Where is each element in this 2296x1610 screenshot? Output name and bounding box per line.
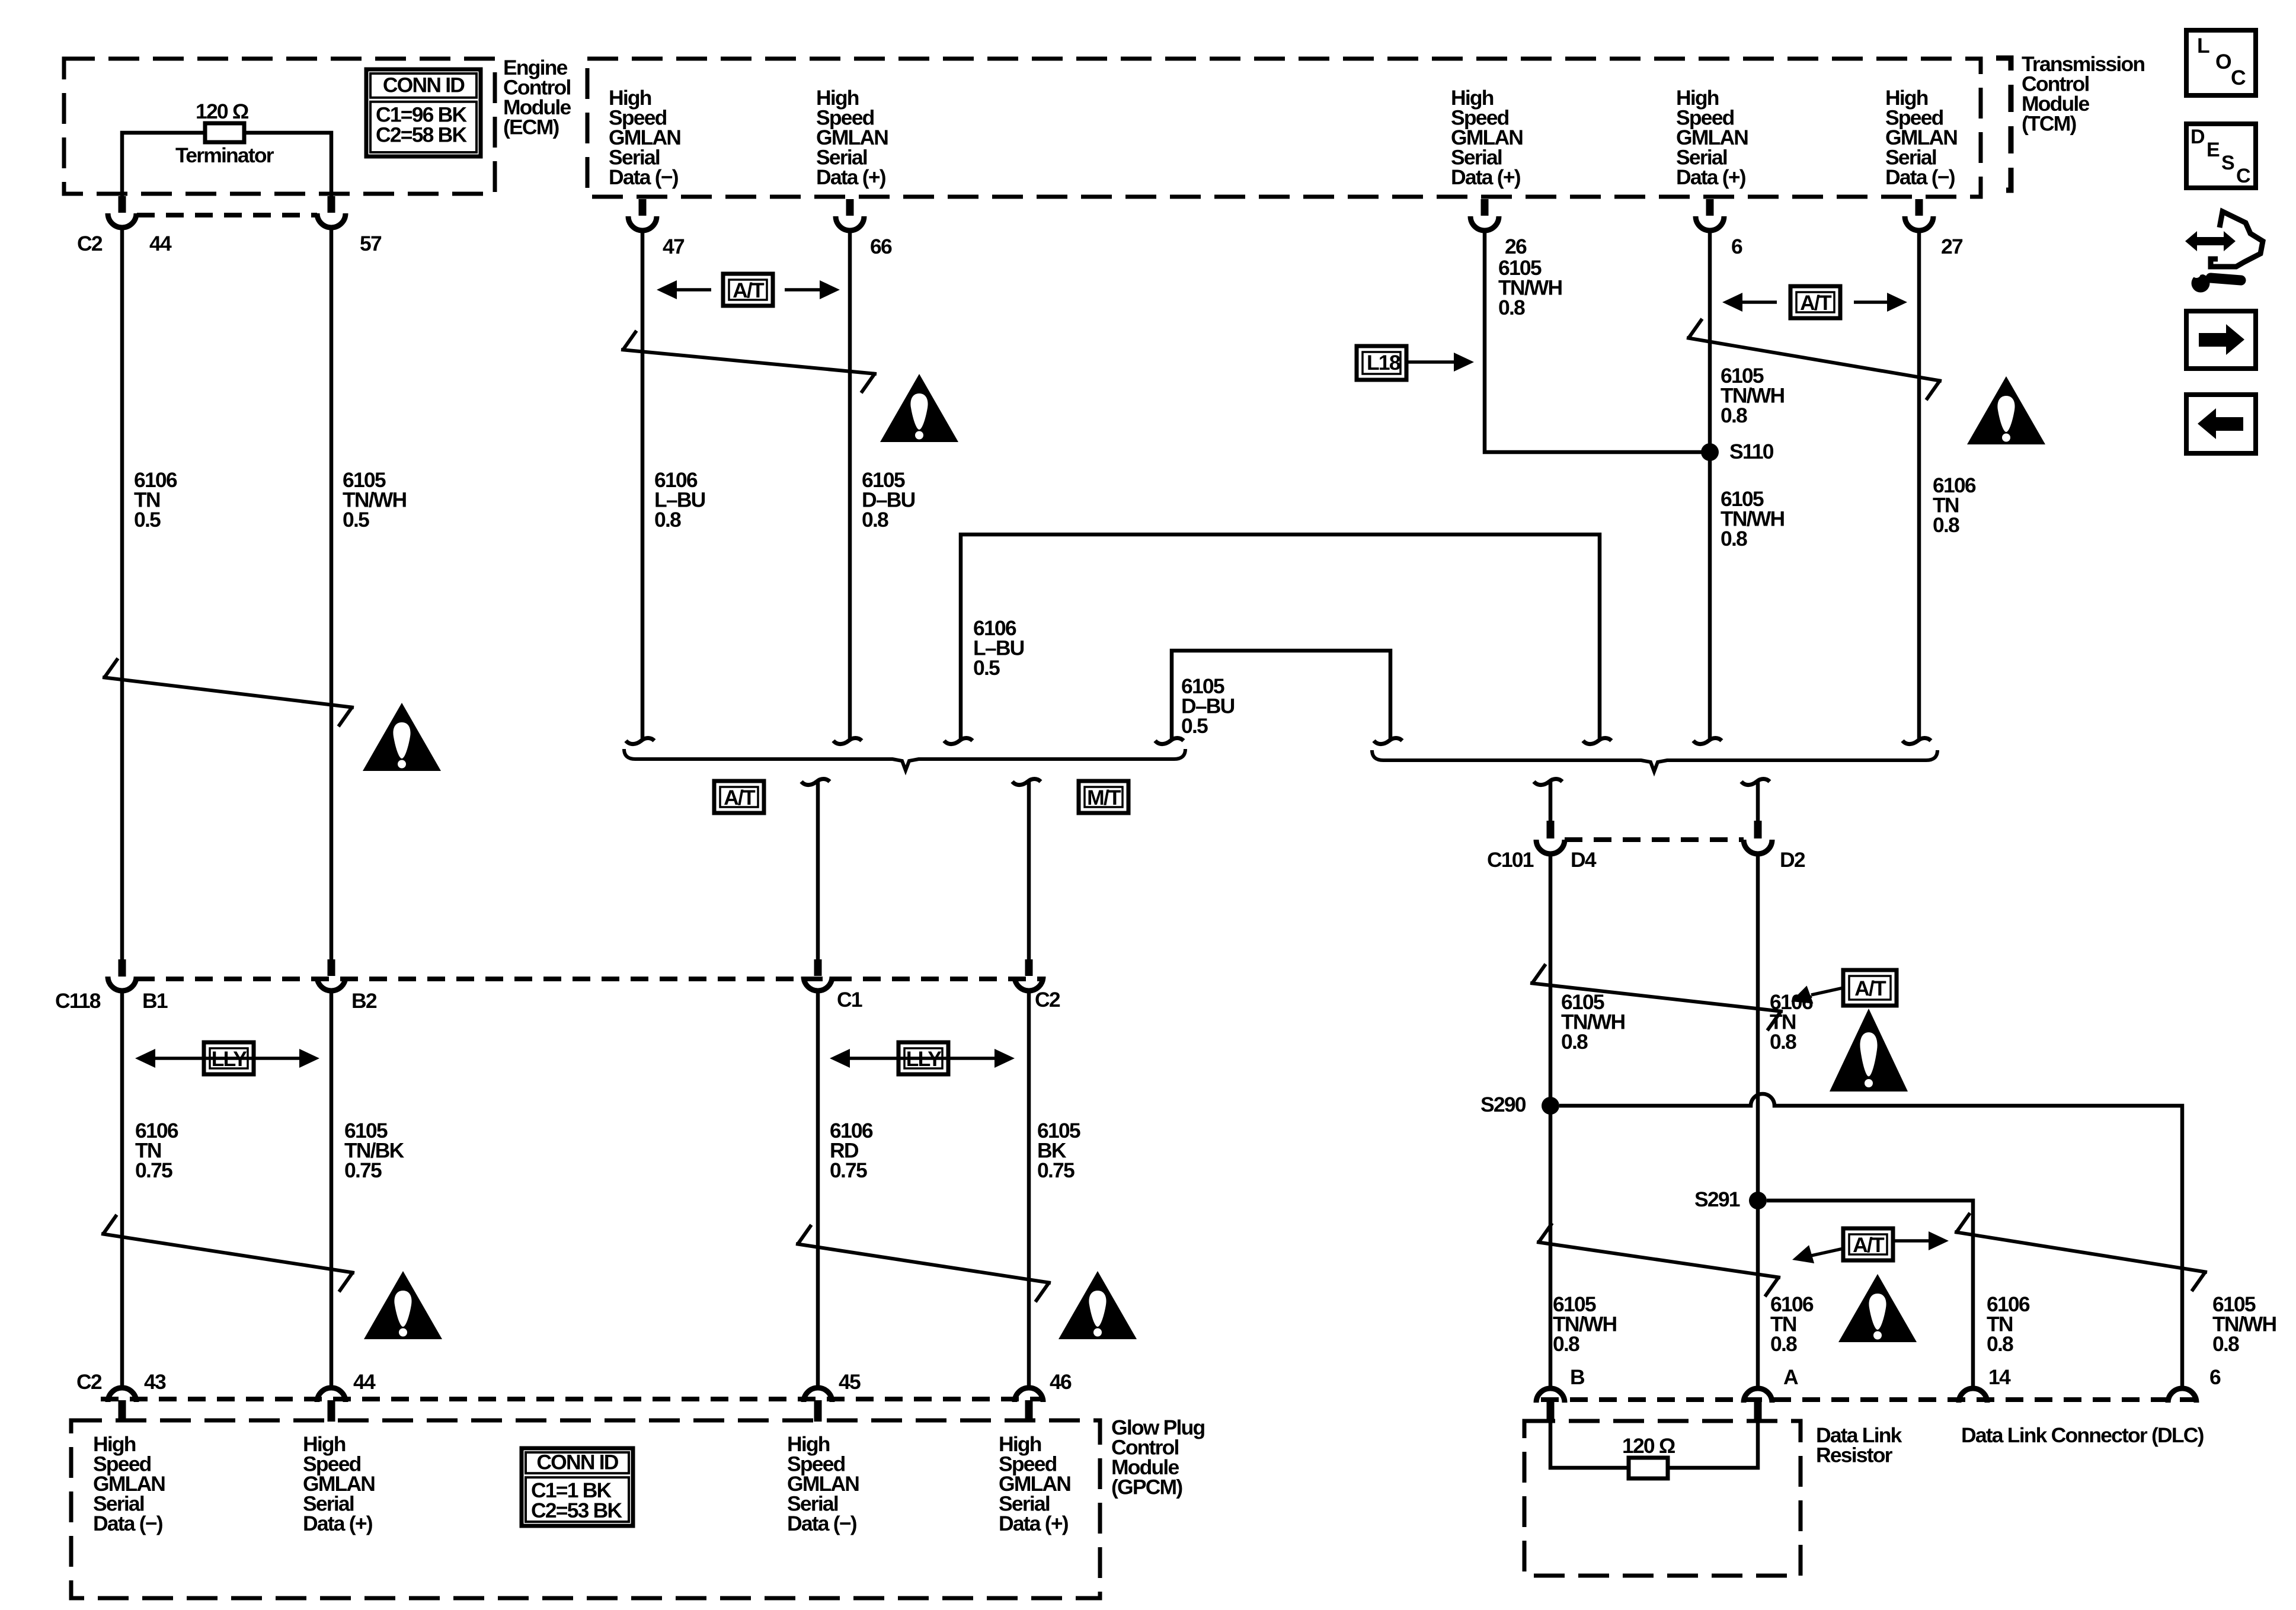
pin D2 of C101 xyxy=(1744,840,1772,854)
A/T box top right xyxy=(1790,286,1840,318)
A/T arrow pair top left xyxy=(664,288,711,292)
svg-text:A: A xyxy=(1783,1365,1798,1389)
warning triangle near B2 xyxy=(363,703,441,771)
LOC icon box xyxy=(2186,30,2256,95)
pin D4 of C101 xyxy=(1536,840,1565,854)
svg-text:B: B xyxy=(1570,1365,1585,1389)
svg-text:120 Ω: 120 Ω xyxy=(196,100,249,123)
svg-text:44: 44 xyxy=(149,232,172,255)
ECM CONN ID table xyxy=(366,69,481,156)
DESC icon box xyxy=(2186,124,2256,188)
svg-text:0.75: 0.75 xyxy=(830,1158,867,1182)
svg-text:D: D xyxy=(2191,126,2205,148)
break across wires 14/6 xyxy=(1955,1213,2207,1291)
svg-text:0.8: 0.8 xyxy=(654,508,681,532)
wire 6106 TN 0.5 (pin44 to B1) xyxy=(120,228,124,959)
svg-text:Data (−): Data (−) xyxy=(609,165,679,189)
svg-text:C101: C101 xyxy=(1487,848,1534,872)
svg-text:0.5: 0.5 xyxy=(134,508,161,532)
resistor 120 ohm DLR xyxy=(1629,1458,1668,1478)
S290 line to DLC pin 6 (with hop) xyxy=(1559,1094,2182,1388)
svg-text:66: 66 xyxy=(870,235,892,258)
svg-text:S: S xyxy=(2221,152,2235,174)
svg-text:0.8: 0.8 xyxy=(1553,1332,1579,1356)
svg-text:Data (+): Data (+) xyxy=(999,1512,1069,1535)
svg-text:Data (+): Data (+) xyxy=(816,165,886,189)
svg-text:CONN ID: CONN ID xyxy=(383,73,465,97)
svg-text:0.8: 0.8 xyxy=(1770,1030,1796,1054)
A/T box below brace xyxy=(714,781,764,813)
TCM dashed box xyxy=(587,59,1981,197)
svg-text:0.75: 0.75 xyxy=(135,1158,172,1182)
svg-text:14: 14 xyxy=(1988,1365,2011,1389)
svg-text:M/T: M/T xyxy=(1087,786,1121,809)
svg-text:S290: S290 xyxy=(1480,1093,1526,1116)
GPCM CONN ID table xyxy=(522,1448,633,1526)
wire 6106 L-BU 0.5 n-shape xyxy=(961,534,1600,740)
break across wires B1/B2 xyxy=(103,658,354,726)
svg-text:44: 44 xyxy=(353,1370,376,1394)
GPCM dashed box xyxy=(71,1420,1100,1598)
LLY box right xyxy=(898,1042,948,1074)
wire D2 to S291 to pin A xyxy=(1756,853,1760,1388)
svg-text:0.5: 0.5 xyxy=(1181,714,1208,738)
pin 27 of TCM xyxy=(1916,199,1923,216)
svg-text:(ECM): (ECM) xyxy=(503,116,559,139)
pin 6 of DLC xyxy=(2168,1388,2196,1403)
svg-text:L18: L18 xyxy=(1367,351,1400,375)
svg-text:46: 46 xyxy=(1050,1370,1072,1394)
svg-text:Terminator: Terminator xyxy=(175,143,274,167)
LLY variant arrow left pair xyxy=(142,1057,311,1060)
pin at x=1380 of GPCM connector xyxy=(804,1388,832,1402)
wire 6106 TN 0.8 (pin 27) xyxy=(1917,231,1921,740)
svg-text:B1: B1 xyxy=(142,989,168,1013)
svg-text:E: E xyxy=(2207,139,2220,161)
splice S110 xyxy=(1701,443,1719,461)
wire to C101 D4 xyxy=(1534,779,1562,785)
right brace xyxy=(1372,750,1937,772)
splice S290 xyxy=(1542,1097,1559,1115)
pin at x=206 of GPCM connector xyxy=(108,1388,136,1402)
pin B2 of C118 xyxy=(328,959,335,976)
svg-text:CONN ID: CONN ID xyxy=(536,1451,618,1474)
svg-text:Data Link Connector (DLC): Data Link Connector (DLC) xyxy=(1961,1423,2204,1447)
DLR dashed box xyxy=(1524,1421,1801,1576)
ECM C2 connector line xyxy=(137,213,317,217)
ECM dashed box xyxy=(64,59,495,194)
LLY box left xyxy=(204,1042,254,1074)
svg-text:C: C xyxy=(2231,66,2246,89)
svg-text:B2: B2 xyxy=(351,989,377,1013)
warning triangle near pin 66 xyxy=(880,374,958,442)
svg-text:0.8: 0.8 xyxy=(1721,404,1747,427)
break across wires 6/27 xyxy=(1687,319,1942,400)
svg-text:0.8: 0.8 xyxy=(2212,1332,2239,1356)
svg-text:26: 26 xyxy=(1505,235,1527,258)
splice S291 xyxy=(1749,1192,1767,1209)
pin 14 of DLC xyxy=(1959,1388,1987,1403)
pin at x=559 of GPCM connector xyxy=(317,1388,346,1402)
vehicle panel + wrench icon xyxy=(2196,237,2224,245)
wire D4 to S290 to pin B xyxy=(1549,853,1553,1388)
svg-text:45: 45 xyxy=(839,1370,861,1394)
svg-text:C1: C1 xyxy=(837,988,862,1012)
wire 6105 D-BU 0.5 inner n-shape xyxy=(1172,651,1390,740)
wire to C101 D2 xyxy=(1741,779,1770,785)
svg-text:LLY: LLY xyxy=(212,1047,248,1071)
svg-text:D4: D4 xyxy=(1571,848,1597,872)
wire 6105 TN/WH 0.8 (pin 6) xyxy=(1708,231,1712,740)
M/T box below brace xyxy=(1079,781,1128,813)
pin C1 of C118 xyxy=(814,959,822,976)
svg-text:43: 43 xyxy=(144,1370,166,1394)
svg-text:(TCM): (TCM) xyxy=(2022,112,2077,136)
svg-text:120 Ω: 120 Ω xyxy=(1622,1434,1675,1458)
break across wires D4/D2 xyxy=(1530,964,1783,1030)
svg-text:0.75: 0.75 xyxy=(1037,1158,1075,1182)
warning triangle bottom right xyxy=(1838,1274,1917,1342)
M/T branch wire (to pin 46) xyxy=(1012,779,1041,785)
A/T arrow pair top right xyxy=(1729,300,1777,304)
svg-text:0.8: 0.8 xyxy=(862,508,888,532)
resistor 120 ohm Terminator xyxy=(205,123,244,142)
pin 26 of TCM xyxy=(1481,199,1489,216)
svg-text:0.8: 0.8 xyxy=(1561,1030,1588,1054)
pin B of DLR xyxy=(1536,1388,1565,1403)
svg-text:A/T: A/T xyxy=(1800,291,1832,315)
warning triangle below mid A/T xyxy=(1830,1009,1908,1092)
pin B1 of C118 xyxy=(119,959,126,977)
svg-text:LLY: LLY xyxy=(906,1047,942,1071)
svg-text:S291: S291 xyxy=(1694,1188,1740,1211)
TCM label bracket xyxy=(1996,58,2011,190)
svg-text:Data (−): Data (−) xyxy=(93,1512,163,1535)
svg-text:Data (+): Data (+) xyxy=(1676,165,1746,189)
wire 6106 L-BU 0.8 (pin 47) xyxy=(641,231,645,740)
pin A of DLR xyxy=(1744,1388,1772,1403)
L18 reference box and arrow xyxy=(1357,346,1406,380)
svg-text:6: 6 xyxy=(2209,1365,2221,1389)
wire: terminator left leg xyxy=(122,133,205,198)
break across wires B/A xyxy=(1537,1223,1780,1297)
wire: terminator right leg xyxy=(244,133,331,198)
wrench xyxy=(2211,278,2241,280)
svg-text:0.8: 0.8 xyxy=(1721,527,1747,550)
svg-text:0.5: 0.5 xyxy=(343,508,369,532)
S291 line to DLC pin 14 xyxy=(1767,1201,1973,1388)
wire 6106 TN 0.75 (B1 to 43) xyxy=(120,991,124,1387)
svg-text:D2: D2 xyxy=(1780,848,1805,872)
pin C2-57 of ECM xyxy=(328,196,335,213)
break across wires 43/44 xyxy=(101,1215,354,1292)
svg-text:0.8: 0.8 xyxy=(1770,1332,1797,1356)
svg-text:47: 47 xyxy=(663,235,685,258)
wire 6105 TN/WH 0.8 (pin 26 to S110) xyxy=(1485,231,1710,452)
pin 47 of TCM xyxy=(639,199,647,216)
svg-text:L: L xyxy=(2197,34,2210,57)
svg-text:Data (+): Data (+) xyxy=(303,1512,373,1535)
svg-text:0.8: 0.8 xyxy=(1498,296,1525,319)
svg-text:0.8: 0.8 xyxy=(1987,1332,2013,1356)
svg-text:C2: C2 xyxy=(1035,988,1060,1012)
svg-text:57: 57 xyxy=(360,232,382,255)
pin at x=1736 of GPCM connector xyxy=(1015,1388,1043,1402)
svg-text:A/T: A/T xyxy=(733,279,765,302)
DLR resistor legs xyxy=(1550,1420,1629,1468)
left brace xyxy=(624,749,1185,770)
C118 connector line xyxy=(137,977,1042,981)
svg-text:A/T: A/T xyxy=(724,786,756,809)
A/T box top left xyxy=(723,274,773,306)
svg-text:27: 27 xyxy=(1941,235,1963,258)
svg-text:Data (−): Data (−) xyxy=(1885,165,1955,189)
GPCM C2 connector line xyxy=(101,1397,1042,1401)
svg-text:C2: C2 xyxy=(77,232,103,255)
break across wires 45/46 xyxy=(796,1225,1051,1302)
wire 6105 TN/BK 0.75 (B2 to 44) xyxy=(330,991,334,1387)
A/T box mid right xyxy=(1843,970,1897,1006)
pin C2 of C118 xyxy=(1025,959,1033,976)
pin 6 of TCM xyxy=(1706,199,1714,216)
svg-text:0.8: 0.8 xyxy=(1933,513,1959,537)
warning triangle near pin 46 xyxy=(1059,1271,1137,1339)
svg-text:(GPCM): (GPCM) xyxy=(1111,1475,1182,1499)
svg-text:0.75: 0.75 xyxy=(344,1158,382,1182)
LLY variant arrow right pair xyxy=(837,1057,1008,1060)
wire 6105 D-BU 0.8 (pin 66) xyxy=(848,231,852,740)
pin C2-44 of ECM xyxy=(119,196,126,213)
wire 6105 TN/WH 0.5 (pin57 to B2) xyxy=(330,228,334,959)
left arrow icon box xyxy=(2186,395,2256,453)
wire 6106 RD 0.75 (C1 to 45) xyxy=(816,991,820,1387)
A/T branch wire (to pin 45) xyxy=(801,779,830,785)
svg-text:A/T: A/T xyxy=(1854,977,1886,1000)
warning triangle near pin 44 xyxy=(364,1271,442,1339)
warning triangle near pin 27 xyxy=(1967,376,2045,444)
svg-text:0.5: 0.5 xyxy=(973,656,1000,680)
svg-text:O: O xyxy=(2215,50,2232,73)
wire 6105 BK 0.75 (C2 to 46) xyxy=(1027,991,1031,1387)
svg-text:C2=53 BK: C2=53 BK xyxy=(531,1499,622,1522)
break across wires 47/66 xyxy=(621,331,877,393)
svg-text:C2: C2 xyxy=(76,1370,102,1394)
svg-text:Resistor: Resistor xyxy=(1816,1443,1893,1467)
right arrow icon box xyxy=(2186,311,2256,369)
C101 connector line xyxy=(1565,837,1744,842)
svg-text:S110: S110 xyxy=(1729,440,1774,463)
DLR/DLC connector line xyxy=(1541,1397,2200,1402)
svg-text:Data (+): Data (+) xyxy=(1451,165,1521,189)
A/T arrows bottom right xyxy=(1843,1228,1893,1260)
svg-text:C2=58 BK: C2=58 BK xyxy=(376,123,467,147)
svg-text:6: 6 xyxy=(1731,235,1742,258)
svg-text:C: C xyxy=(2236,165,2251,187)
pin 66 of TCM xyxy=(846,199,854,216)
svg-text:A/T: A/T xyxy=(1853,1233,1885,1257)
svg-text:C118: C118 xyxy=(55,989,101,1013)
svg-text:Data (−): Data (−) xyxy=(787,1512,857,1535)
